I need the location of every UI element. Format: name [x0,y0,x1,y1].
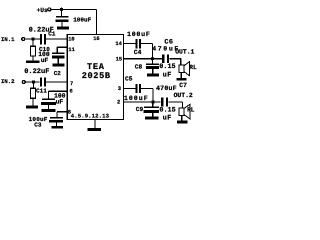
svg-text:+Us: +Us [37,7,48,14]
svg-text:C9: C9 [136,106,144,113]
svg-text:7: 7 [70,81,73,87]
svg-text:C8: C8 [135,63,143,70]
svg-text:2: 2 [117,100,120,106]
svg-text:2025B: 2025B [82,71,111,81]
svg-text:uF: uF [56,99,64,106]
svg-text:11: 11 [68,47,74,53]
svg-text:15: 15 [116,57,122,63]
svg-text:uF: uF [41,57,49,64]
svg-text:C3: C3 [34,122,42,129]
svg-text:0.15: 0.15 [159,107,175,115]
svg-text:3: 3 [118,86,121,92]
svg-text:16: 16 [93,36,99,42]
svg-text:100uF: 100uF [127,31,151,38]
svg-text:uF: uF [163,115,172,123]
svg-text:10: 10 [68,37,74,43]
svg-text:100uF: 100uF [124,95,149,102]
svg-text:C7: C7 [179,82,187,89]
svg-text:C11: C11 [36,87,47,94]
svg-text:C1: C1 [48,30,56,37]
svg-text:RL: RL [189,64,197,71]
svg-text:C2: C2 [54,70,62,77]
svg-text:C4: C4 [134,49,142,56]
svg-text:RL: RL [187,107,195,114]
svg-text:C5: C5 [125,75,133,82]
svg-text:OUT.2: OUT.2 [174,92,193,99]
svg-text:6: 6 [70,89,73,95]
svg-text:IN.1: IN.1 [1,36,15,43]
svg-text:uF: uF [163,72,172,80]
svg-text:0.15: 0.15 [159,63,175,71]
svg-text:OUT.1: OUT.1 [175,49,194,56]
svg-text:4.5.9.12.13: 4.5.9.12.13 [71,113,110,120]
svg-text:14: 14 [115,41,122,47]
svg-text:0.22uF: 0.22uF [24,68,49,76]
svg-text:IN.2: IN.2 [1,78,15,85]
svg-text:8: 8 [68,109,71,115]
svg-text:100uF: 100uF [73,17,91,24]
